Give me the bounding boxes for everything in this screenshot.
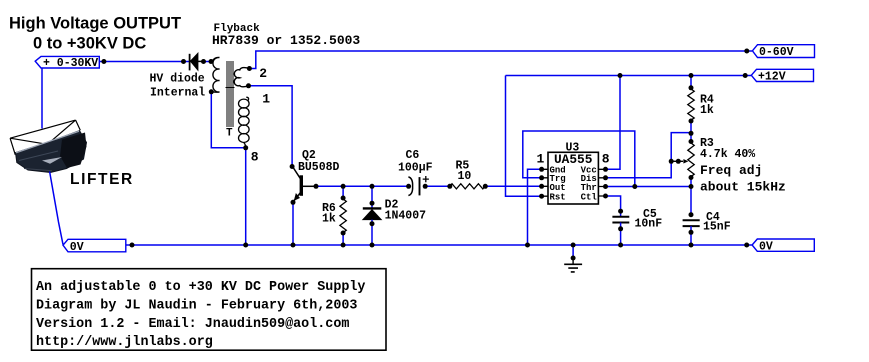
svg-text:1k: 1k [322,212,336,225]
junction dots U3 left pins [539,167,544,199]
junction dot ground symbol top [571,256,576,261]
wire pin1 to Q2 collector [249,86,293,167]
svg-text:Version 1.2 - Email: Jnaudin50: Version 1.2 - Email: Jnaudin509@aol.com [36,317,349,332]
transformer T [212,57,270,164]
wire lifter to 0V [50,172,63,245]
svg-text:1N4007: 1N4007 [385,210,427,223]
junction dot Q2 emitter [291,200,296,205]
junction dots R4 R3 C4 column [689,73,694,235]
junction dot pin 1 [246,83,251,88]
wire pin2 to 0-60V [249,51,752,69]
flag 0V left [63,239,126,254]
IC U3 UA555 [537,142,610,204]
label Flyback [212,23,360,48]
svg-text:HR7839 or 1352.5003: HR7839 or 1352.5003 [212,33,360,48]
svg-text:Rst: Rst [550,192,566,202]
title text [9,14,181,52]
wire thr [606,186,692,188]
resistor R4 [688,76,714,142]
flag +12V [751,69,813,83]
lifter drawing [10,68,134,188]
wire sec bottom [211,92,245,245]
svg-text:4.7k 40%: 4.7k 40% [700,148,755,161]
wire base net [316,185,409,187]
svg-text:Ctl: Ctl [581,192,598,202]
wire ground rail [126,244,752,246]
flag 0V right [752,239,814,253]
core [227,61,233,127]
svg-text:0 to +30KV DC: 0 to +30KV DC [33,34,146,52]
wire +12V rail [506,75,752,77]
svg-text:Internal: Internal [150,87,205,100]
svg-text:+12V: +12V [758,71,786,84]
svg-text:15nF: 15nF [703,220,731,233]
ground symbol [564,245,582,272]
svg-text:1: 1 [262,92,270,107]
wire rst riser [506,76,542,197]
svg-text:T: T [226,128,233,140]
svg-text:+ 0-30KV: + 0-30KV [43,57,98,70]
svg-text:1: 1 [537,151,545,166]
svg-text:8: 8 [251,150,259,165]
junction dots C5 terminals [618,209,623,232]
junction dot HV coil bottom [209,89,214,94]
capacitor C5 [612,208,662,245]
junction dots D2 terminals [370,201,375,227]
diode D1 HV internal [150,53,206,100]
wire gnd drop [528,169,542,245]
svg-text:LIFTER: LIFTER [70,171,134,188]
wire emitter down [292,202,294,245]
svg-text:An adjustable 0 to +30 KV DC P: An adjustable 0 to +30 KV DC Power Suppl… [36,280,365,295]
svg-text:8: 8 [602,151,610,166]
svg-text:Thr: Thr [581,183,597,193]
svg-text:C6: C6 [406,149,420,162]
winding lower to 8 [246,97,248,100]
svg-text:1k: 1k [700,104,714,117]
winding 2-1 [234,68,249,87]
junction dots HV output net [101,59,213,64]
svg-text:about 15kHz: about 15kHz [700,179,786,194]
junction dots R3 wiper [669,159,681,164]
junction dot 0-60V flag [744,49,749,54]
svg-text:BU508D: BU508D [298,161,340,174]
info box [32,269,387,351]
junction dot Q2 collector [290,164,295,169]
svg-text:100µF: 100µF [398,161,433,174]
junction dots C6 R5 out net [423,184,488,189]
svg-text:http://www.jlnlabs.org: http://www.jlnlabs.org [36,335,213,350]
junction dots ground rail [130,243,750,248]
svg-text:High Voltage OUTPUT: High Voltage OUTPUT [9,14,181,32]
junction dot pin 8 [243,145,248,150]
svg-text:0V: 0V [70,241,84,254]
svg-text:HV diode: HV diode [150,72,205,85]
potentiometer R3 [671,137,786,215]
svg-text:Diagram by JL Naudin - Februar: Diagram by JL Naudin - February 6th,2003 [36,298,357,313]
resistor R6 [322,186,346,245]
wire dis to wiper [606,133,692,178]
capacitor C4 [683,211,731,245]
wire r5 to out pin [485,185,541,187]
wire hv top [99,61,213,63]
diode D2 [363,186,426,245]
wire vcc riser [606,76,621,170]
transistor Q2 [293,149,340,202]
junction dot pin 2 [247,66,252,71]
flag 0-60V [752,45,814,59]
svg-text:10: 10 [458,170,472,183]
svg-text:2: 2 [259,66,267,81]
junction dot +12V flag [743,73,748,78]
svg-text:0V: 0V [759,240,773,253]
resistor R5 [450,160,485,189]
wire c6 to r5 [425,185,450,187]
wire ctl to C5 [606,196,621,211]
junction dot Vcc riser at +12V rail [618,73,623,78]
junction dots R6 terminals [341,196,346,236]
svg-text:Freq adj: Freq adj [700,163,762,178]
junction dot Trg-Thr loop at Thr wire [632,184,637,189]
wire trg loop [523,131,635,187]
svg-text:0-60V: 0-60V [759,46,794,59]
capacitor C6 [398,149,433,196]
flag +0-30KV [35,56,99,69]
primary hv coil [212,57,220,92]
junction dots U3 right pins [603,167,608,199]
junction dots Q2 base net [314,184,412,189]
svg-text:10nF: 10nF [635,217,663,230]
svg-text:Out: Out [550,183,566,193]
